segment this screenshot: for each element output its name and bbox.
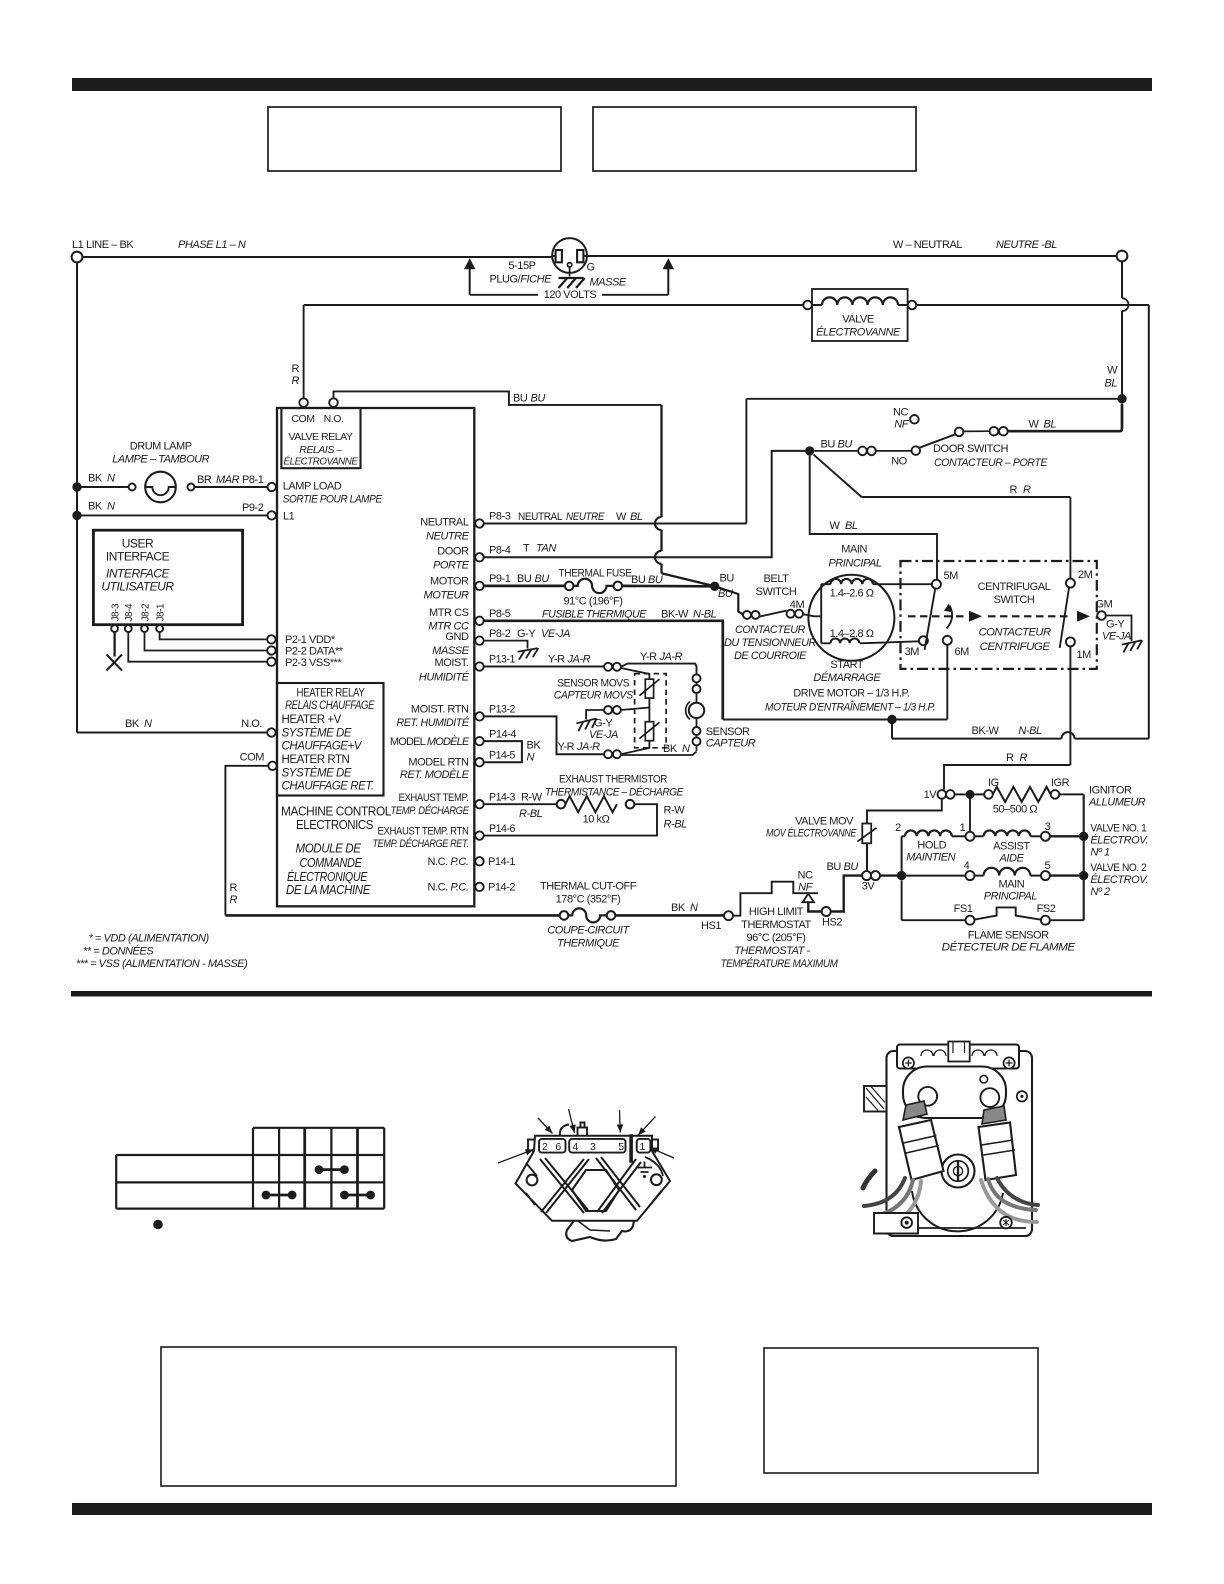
svg-text:MASSE: MASSE [590, 277, 627, 289]
svg-text:ÉLECTROV.: ÉLECTROV. [1090, 834, 1148, 847]
svg-text:SENSOR: SENSOR [706, 726, 750, 738]
svg-text:R-W: R-W [664, 805, 686, 817]
svg-text:RET. MODÈLE: RET. MODÈLE [400, 768, 470, 781]
svg-text:NEUTRAL: NEUTRAL [518, 511, 562, 523]
svg-text:L1 LINE – BK: L1 LINE – BK [72, 239, 134, 251]
svg-text:G-Y: G-Y [594, 718, 613, 730]
svg-text:GM: GM [1096, 599, 1113, 611]
svg-text:THERMOSTAT -: THERMOSTAT - [734, 945, 810, 957]
svg-text:MAIN: MAIN [999, 879, 1025, 891]
svg-text:R: R [1010, 484, 1018, 496]
svg-text:BK: BK [88, 473, 103, 485]
svg-text:SYSTÈME DE: SYSTÈME DE [282, 727, 352, 740]
svg-text:NF: NF [894, 419, 909, 431]
svg-text:THERMOSTAT: THERMOSTAT [741, 919, 811, 931]
svg-text:MOTOR: MOTOR [430, 576, 469, 588]
svg-text:VE-JA: VE-JA [541, 628, 570, 640]
svg-text:1: 1 [639, 1141, 645, 1153]
svg-text:MOIST.: MOIST. [435, 657, 469, 669]
svg-text:RELAIS CHAUFFAGE: RELAIS CHAUFFAGE [285, 700, 375, 712]
svg-text:W: W [1107, 365, 1118, 377]
svg-text:HEATER +V: HEATER +V [282, 714, 342, 726]
svg-text:IGR: IGR [1051, 777, 1070, 789]
svg-text:COMMANDE: COMMANDE [300, 855, 363, 870]
svg-text:N-BL: N-BL [1018, 725, 1042, 737]
svg-text:P13-1: P13-1 [489, 654, 515, 666]
svg-text:BK-W: BK-W [972, 725, 1000, 737]
svg-text:SORTIE POUR LAMPE: SORTIE POUR LAMPE [283, 494, 383, 506]
svg-text:RELAIS –: RELAIS – [299, 444, 342, 456]
svg-text:BL: BL [1044, 419, 1057, 431]
svg-text:EXHAUST TEMP.: EXHAUST TEMP. [399, 792, 469, 804]
svg-text:JA-R: JA-R [567, 654, 591, 666]
svg-text:R: R [230, 894, 238, 906]
svg-text:BU: BU [517, 573, 532, 585]
svg-text:MTR CS: MTR CS [429, 607, 469, 619]
svg-text:JA-R: JA-R [659, 651, 683, 663]
svg-text:W: W [616, 511, 627, 523]
svg-text:DU TENSIONNEUR: DU TENSIONNEUR [724, 637, 816, 649]
svg-text:1V: 1V [924, 789, 938, 801]
svg-text:W: W [830, 520, 841, 532]
svg-text:COM: COM [291, 413, 314, 425]
svg-text:FS2: FS2 [1037, 903, 1056, 915]
svg-text:DOOR SWITCH: DOOR SWITCH [933, 443, 1008, 455]
svg-text:NEUTRE: NEUTRE [566, 511, 605, 523]
svg-text:PRINCIPAL: PRINCIPAL [828, 558, 882, 570]
svg-text:R: R [230, 882, 238, 894]
svg-text:SWITCH: SWITCH [994, 594, 1035, 606]
svg-text:BR: BR [197, 474, 212, 486]
svg-text:AIDE: AIDE [998, 853, 1024, 865]
svg-text:NEUTRAL: NEUTRAL [420, 517, 469, 529]
svg-text:J8-2: J8-2 [140, 603, 151, 622]
svg-text:EXHAUST TEMP. RTN: EXHAUST TEMP. RTN [378, 825, 469, 837]
svg-text:N: N [682, 743, 690, 755]
svg-text:VE-JA: VE-JA [1102, 631, 1131, 643]
svg-text:VALVE NO. 1: VALVE NO. 1 [1090, 823, 1146, 835]
svg-text:BK: BK [671, 902, 686, 914]
svg-text:3: 3 [590, 1141, 596, 1153]
svg-text:Y-R: Y-R [548, 654, 565, 666]
svg-text:THERMIQUE: THERMIQUE [557, 938, 620, 950]
svg-text:DRUM LAMP: DRUM LAMP [130, 441, 192, 453]
svg-text:PHASE L1 – N: PHASE L1 – N [178, 239, 246, 251]
svg-text:BU: BU [631, 574, 646, 586]
svg-text:** = DONNÉES: ** = DONNÉES [83, 945, 154, 958]
svg-text:N.C. P.C.: N.C. P.C. [428, 882, 469, 894]
svg-text:3V: 3V [862, 880, 876, 892]
svg-text:P8-4: P8-4 [489, 545, 511, 557]
svg-text:BELT: BELT [764, 573, 790, 585]
svg-text:6M: 6M [955, 646, 970, 658]
svg-text:ÉLECTROV.: ÉLECTROV. [1090, 873, 1148, 886]
svg-text:MAIN: MAIN [841, 544, 867, 556]
svg-text:LAMP LOAD: LAMP LOAD [283, 481, 342, 493]
svg-text:P2-3 VSS***: P2-3 VSS*** [285, 657, 342, 669]
svg-text:5M: 5M [944, 570, 959, 582]
svg-text:2: 2 [895, 822, 901, 834]
svg-text:1.4–2.8 Ω: 1.4–2.8 Ω [830, 628, 874, 640]
svg-text:CONTACTEUR: CONTACTEUR [979, 627, 1052, 639]
svg-text:HIGH LIMIT: HIGH LIMIT [749, 906, 804, 918]
svg-text:THERMAL FUSE: THERMAL FUSE [559, 568, 632, 580]
svg-text:R-BL: R-BL [519, 808, 543, 820]
svg-text:NF: NF [798, 881, 813, 893]
svg-text:4M: 4M [790, 599, 805, 611]
svg-text:BU: BU [718, 588, 733, 600]
svg-text:BU: BU [531, 392, 546, 404]
svg-text:CENTRIFUGE: CENTRIFUGE [980, 641, 1051, 653]
svg-text:FLAME SENSOR: FLAME SENSOR [968, 929, 1049, 941]
svg-text:J8-4: J8-4 [124, 603, 135, 622]
svg-text:Nº 1: Nº 1 [1090, 847, 1110, 859]
svg-text:2: 2 [542, 1141, 548, 1153]
svg-text:P8-5: P8-5 [489, 608, 511, 620]
svg-text:N-BL: N-BL [693, 608, 717, 620]
svg-text:R: R [1006, 752, 1014, 764]
svg-text:CENTRIFUGAL: CENTRIFUGAL [978, 581, 1051, 593]
svg-text:3: 3 [1045, 821, 1051, 833]
svg-text:CHAUFFAGE RET.: CHAUFFAGE RET. [282, 781, 374, 793]
svg-text:2M: 2M [1078, 569, 1093, 581]
svg-text:ÉLECTROVANNE: ÉLECTROVANNE [816, 326, 901, 339]
svg-text:R-W: R-W [521, 791, 543, 803]
svg-text:NO: NO [891, 455, 907, 467]
svg-text:P9-2: P9-2 [242, 502, 264, 514]
svg-text:P14-1: P14-1 [488, 856, 515, 868]
svg-text:FS1: FS1 [954, 903, 973, 915]
svg-text:N: N [107, 501, 115, 513]
svg-text:MODULE DE: MODULE DE [296, 841, 362, 856]
svg-text:COM: COM [240, 752, 265, 764]
svg-text:SYSTÈME DE: SYSTÈME DE [282, 767, 352, 780]
svg-text:SWITCH: SWITCH [756, 586, 797, 598]
svg-text:BK: BK [125, 718, 140, 730]
svg-text:BL: BL [630, 511, 643, 523]
svg-text:PLUG/FICHE: PLUG/FICHE [489, 274, 552, 286]
svg-text:W – NEUTRAL: W – NEUTRAL [893, 239, 962, 251]
svg-text:ELECTRONICS: ELECTRONICS [296, 817, 374, 832]
svg-text:DE COURROIE: DE COURROIE [734, 650, 807, 662]
svg-text:MODEL MODÈLE: MODEL MODÈLE [390, 735, 470, 748]
svg-text:TAN: TAN [536, 543, 556, 555]
svg-text:HS1: HS1 [701, 920, 721, 932]
svg-text:120 VOLTS: 120 VOLTS [544, 289, 597, 301]
svg-text:6: 6 [555, 1141, 561, 1153]
svg-text:*** = VSS (ALIMENTATION - MASS: *** = VSS (ALIMENTATION - MASSE) [76, 958, 248, 970]
svg-text:MODEL RTN: MODEL RTN [408, 757, 469, 769]
svg-text:LAMPE – TAMBOUR: LAMPE – TAMBOUR [112, 454, 209, 466]
svg-text:MOTEUR D'ENTRAÎNEMENT – 1/3 H.: MOTEUR D'ENTRAÎNEMENT – 1/3 H.P. [765, 701, 935, 714]
svg-text:R: R [292, 363, 300, 375]
svg-text:P8-2: P8-2 [489, 628, 511, 640]
svg-text:RET. HUMIDITÉ: RET. HUMIDITÉ [397, 716, 470, 729]
svg-text:TEMPÉRATURE MAXIMUM: TEMPÉRATURE MAXIMUM [721, 957, 839, 970]
svg-text:MASSE: MASSE [432, 645, 469, 657]
svg-text:THERMAL CUT-OFF: THERMAL CUT-OFF [540, 881, 637, 893]
svg-text:G: G [587, 262, 595, 274]
svg-text:DOOR: DOOR [437, 546, 469, 558]
svg-text:BK: BK [527, 740, 542, 752]
svg-text:R: R [1020, 752, 1028, 764]
svg-text:DÉMARRAGE: DÉMARRAGE [813, 671, 881, 684]
svg-text:UTILISATEUR: UTILISATEUR [101, 580, 174, 594]
svg-text:1.4–2.6 Ω: 1.4–2.6 Ω [830, 588, 874, 600]
svg-text:Nº 2: Nº 2 [1090, 886, 1110, 898]
svg-text:P2-2 DATA**: P2-2 DATA** [285, 646, 344, 658]
svg-text:3M: 3M [905, 646, 920, 658]
svg-text:PRINCIPAL: PRINCIPAL [984, 890, 1038, 902]
svg-text:GND: GND [445, 631, 469, 643]
svg-text:HOLD: HOLD [917, 840, 946, 852]
svg-text:MOV ÉLECTROVANNE: MOV ÉLECTROVANNE [766, 827, 857, 840]
svg-text:P13-2: P13-2 [489, 704, 515, 716]
svg-text:L1: L1 [283, 511, 295, 523]
svg-text:BU: BU [720, 573, 735, 585]
svg-text:P2-1 VDD*: P2-1 VDD* [285, 634, 336, 646]
svg-text:DÉTECTEUR DE FLAMME: DÉTECTEUR DE FLAMME [942, 941, 1076, 954]
svg-text:NC: NC [893, 407, 908, 419]
svg-text:START: START [830, 659, 864, 671]
svg-text:INTERFACE: INTERFACE [106, 550, 170, 564]
svg-text:P14-5: P14-5 [489, 749, 515, 761]
svg-text:CAPTEUR: CAPTEUR [706, 737, 756, 749]
svg-text:IGNITOR: IGNITOR [1089, 785, 1132, 797]
svg-text:MAR: MAR [216, 474, 240, 486]
svg-text:4: 4 [572, 1141, 578, 1153]
svg-text:R: R [292, 375, 300, 387]
svg-text:HEATER RELAY: HEATER RELAY [297, 686, 365, 700]
svg-text:96°C (205°F): 96°C (205°F) [746, 932, 805, 944]
svg-text:BU: BU [844, 861, 859, 873]
svg-text:R-BL: R-BL [664, 819, 688, 831]
svg-text:MOIST. RTN: MOIST. RTN [411, 704, 469, 716]
svg-text:CAPTEUR MOVS: CAPTEUR MOVS [554, 689, 634, 701]
svg-text:W: W [1029, 419, 1040, 431]
svg-text:P14-2: P14-2 [488, 882, 515, 894]
svg-text:BU: BU [838, 438, 853, 450]
svg-text:ÉLECTROVANNE: ÉLECTROVANNE [284, 455, 359, 468]
svg-text:NC: NC [798, 870, 813, 882]
svg-text:EXHAUST THERMISTOR: EXHAUST THERMISTOR [559, 774, 667, 786]
svg-text:J8-3: J8-3 [110, 603, 121, 622]
svg-text:Y-R: Y-R [558, 741, 575, 753]
svg-text:N: N [144, 718, 152, 730]
svg-text:BU: BU [535, 573, 550, 585]
svg-text:BU: BU [827, 861, 842, 873]
svg-text:TEMP. DÉCHARGE: TEMP. DÉCHARGE [391, 804, 470, 817]
svg-text:HEATER RTN: HEATER RTN [282, 754, 350, 766]
svg-text:5: 5 [618, 1141, 624, 1153]
svg-text:91°C (196°F): 91°C (196°F) [563, 596, 622, 608]
svg-text:VE-JA: VE-JA [589, 729, 618, 741]
svg-text:5: 5 [1045, 860, 1051, 872]
svg-text:P9-1: P9-1 [489, 573, 511, 585]
svg-text:1: 1 [960, 822, 966, 834]
svg-text:DRIVE MOTOR – 1/3 H.P.: DRIVE MOTOR – 1/3 H.P. [793, 688, 909, 700]
svg-text:JA-R: JA-R [576, 741, 600, 753]
svg-text:ALLUMEUR: ALLUMEUR [1088, 797, 1146, 809]
svg-text:THERMISTANCE – DÉCHARGE: THERMISTANCE – DÉCHARGE [545, 786, 684, 799]
svg-text:NEUTRE: NEUTRE [426, 531, 470, 543]
svg-text:4: 4 [964, 860, 970, 872]
svg-text:SENSOR MOVS: SENSOR MOVS [557, 678, 629, 690]
svg-text:BU: BU [513, 392, 528, 404]
svg-text:N.O.: N.O. [324, 413, 344, 425]
svg-text:USER: USER [122, 537, 154, 551]
svg-text:ASSIST: ASSIST [993, 841, 1030, 853]
svg-text:BU: BU [648, 574, 663, 586]
svg-text:N.O.: N.O. [241, 718, 262, 730]
svg-text:PORTE: PORTE [433, 560, 470, 572]
svg-text:G-Y: G-Y [1106, 619, 1125, 631]
svg-text:INTERFACE: INTERFACE [106, 567, 171, 581]
svg-text:TEMP. DÉCHARGE RET.: TEMP. DÉCHARGE RET. [373, 837, 469, 850]
svg-text:N: N [690, 902, 698, 914]
svg-text:BK: BK [663, 743, 678, 755]
svg-text:BK-W: BK-W [661, 608, 689, 620]
svg-text:CONTACTEUR: CONTACTEUR [735, 624, 805, 636]
svg-text:VALVE RELAY: VALVE RELAY [289, 431, 353, 443]
svg-text:Y-R: Y-R [640, 651, 657, 663]
svg-text:5-15P: 5-15P [508, 260, 535, 272]
svg-text:CHAUFFAGE+V: CHAUFFAGE+V [282, 741, 363, 753]
svg-text:1M: 1M [1077, 649, 1092, 661]
svg-text:MOTEUR: MOTEUR [424, 590, 469, 602]
svg-text:* = VDD (ALIMENTATION): * = VDD (ALIMENTATION) [89, 933, 210, 945]
svg-text:N: N [527, 752, 535, 764]
svg-text:50–500 Ω: 50–500 Ω [993, 804, 1038, 816]
svg-text:178°C (352°F): 178°C (352°F) [556, 894, 621, 906]
svg-text:MAINTIEN: MAINTIEN [906, 852, 955, 864]
svg-text:COUPE-CIRCUIT: COUPE-CIRCUIT [547, 925, 630, 937]
svg-text:G-Y: G-Y [517, 628, 536, 640]
svg-text:BL: BL [845, 520, 858, 532]
svg-text:VALVE: VALVE [842, 314, 874, 326]
svg-text:P14-4: P14-4 [489, 728, 516, 740]
svg-text:P8-3: P8-3 [489, 511, 511, 523]
svg-text:HUMIDITÉ: HUMIDITÉ [419, 670, 470, 683]
svg-text:N.C. P.C.: N.C. P.C. [428, 856, 469, 868]
svg-text:VALVE MOV: VALVE MOV [795, 816, 854, 828]
svg-text:P14-3: P14-3 [489, 791, 515, 803]
svg-text:J8-1: J8-1 [155, 603, 166, 622]
svg-text:NEUTRE -BL: NEUTRE -BL [996, 239, 1057, 251]
svg-text:N: N [107, 473, 115, 485]
svg-text:FUSIBLE THERMIQUE: FUSIBLE THERMIQUE [542, 609, 647, 621]
svg-text:BK: BK [88, 501, 103, 513]
svg-text:T: T [523, 543, 530, 555]
svg-text:HS2: HS2 [822, 917, 842, 929]
svg-text:VALVE NO. 2: VALVE NO. 2 [1090, 862, 1146, 874]
svg-text:R: R [1023, 484, 1031, 496]
svg-text:DE LA MACHINE: DE LA MACHINE [286, 882, 371, 897]
svg-text:CONTACTEUR – PORTE: CONTACTEUR – PORTE [934, 457, 1048, 469]
svg-text:P14-6: P14-6 [489, 823, 515, 835]
svg-text:10 kΩ: 10 kΩ [583, 814, 610, 826]
svg-text:BU: BU [821, 438, 836, 450]
svg-text:BL: BL [1104, 378, 1117, 390]
svg-text:P8-1: P8-1 [242, 474, 264, 486]
